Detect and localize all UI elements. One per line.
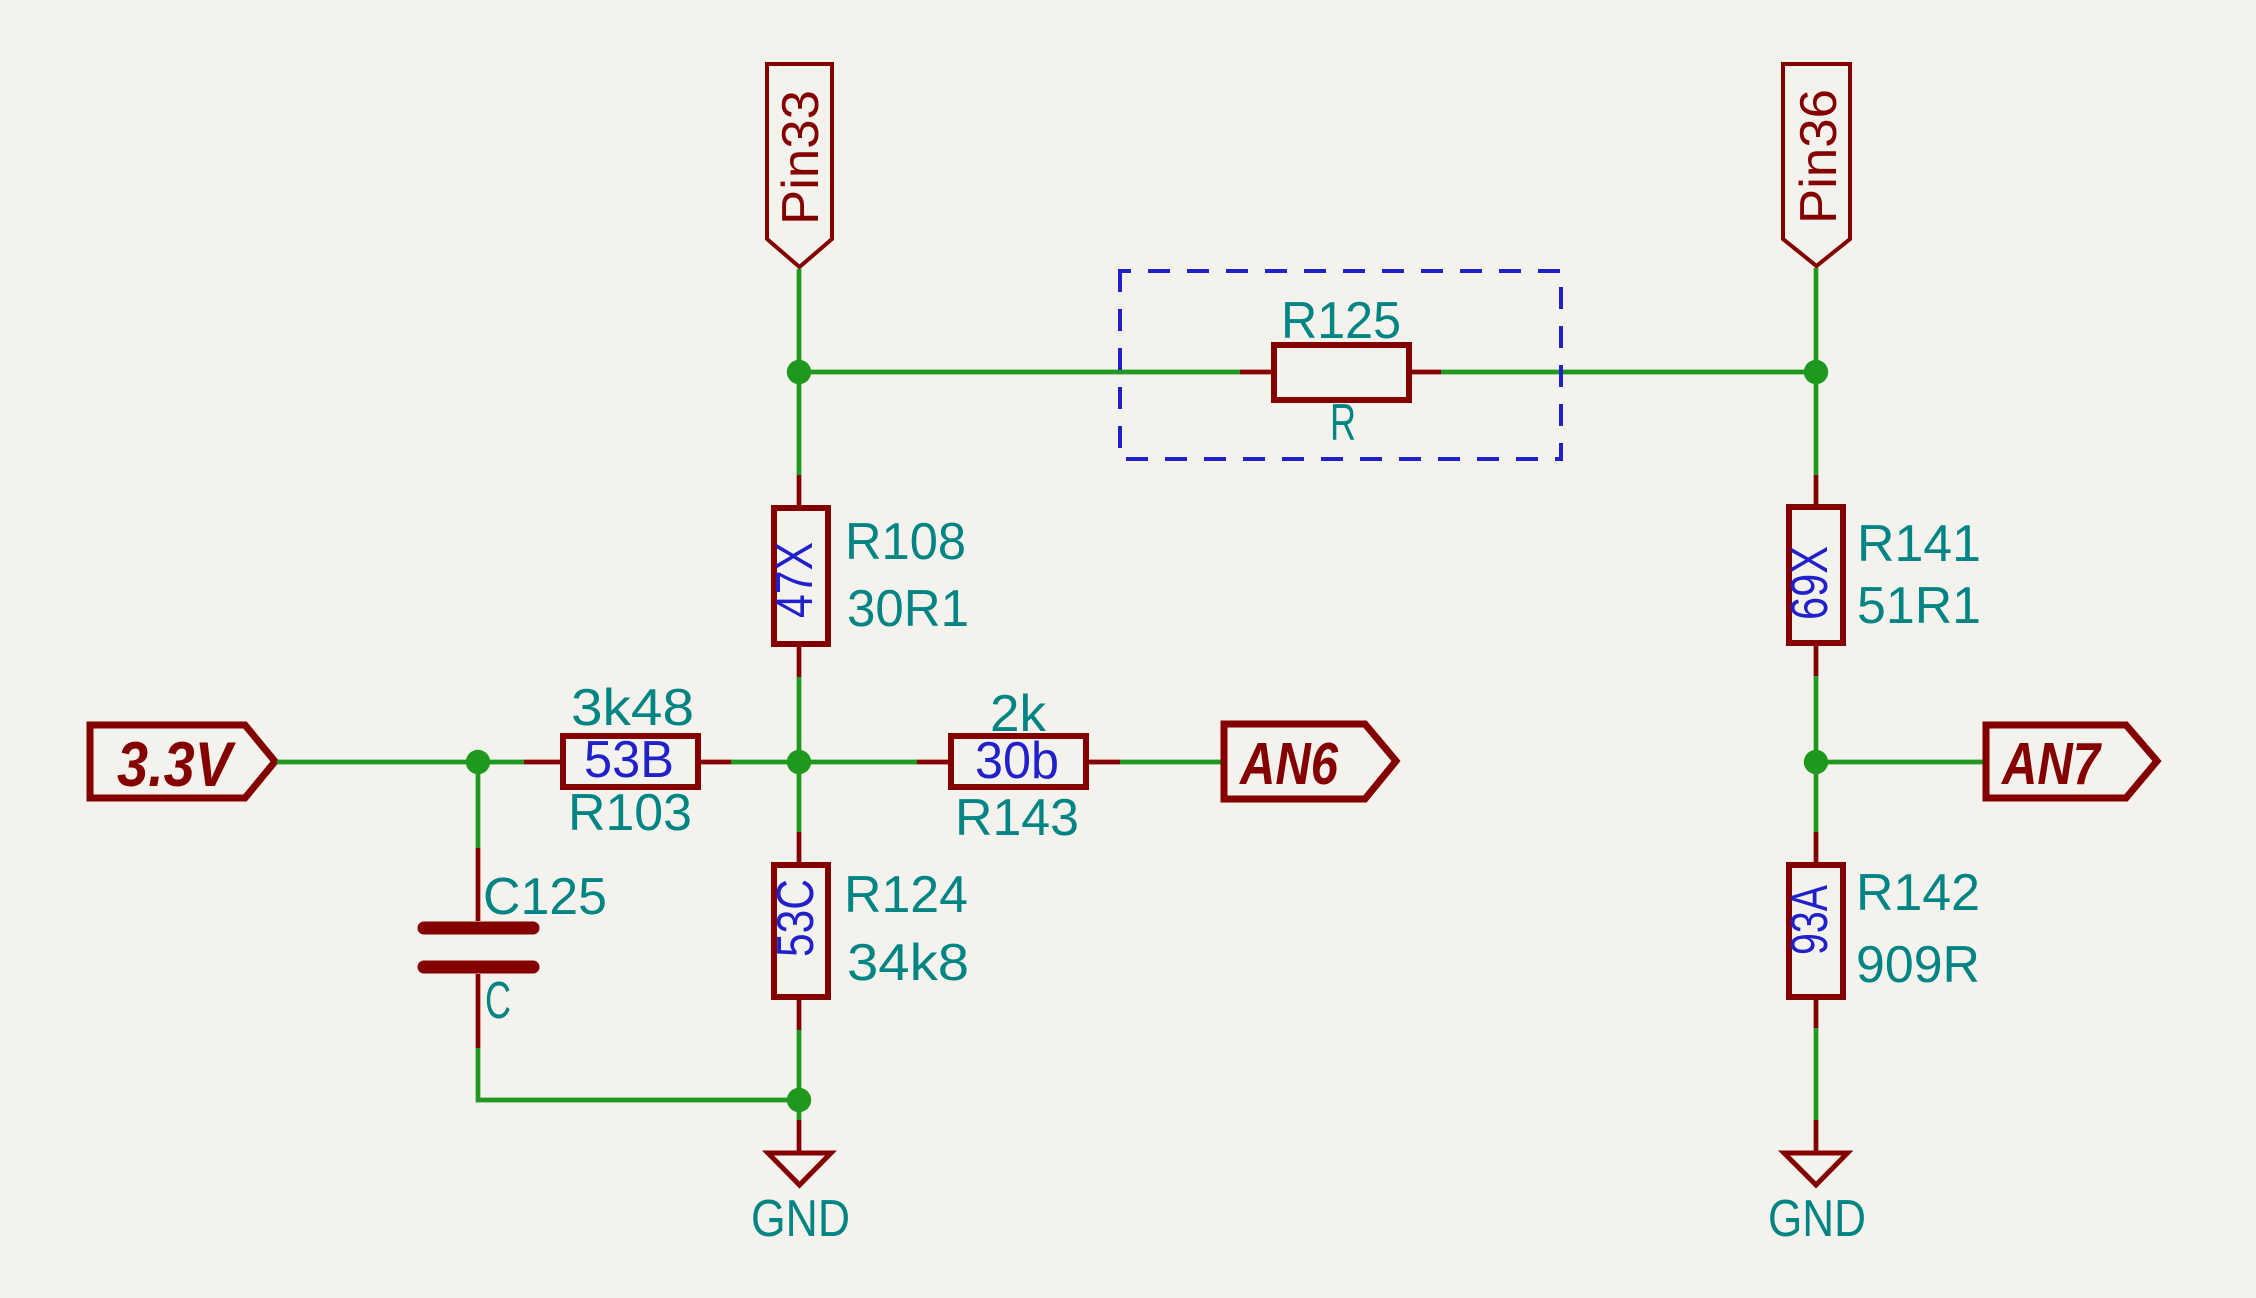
svg-text:GND: GND [1768, 1190, 1866, 1248]
svg-text:Pin33: Pin33 [772, 90, 830, 225]
wire R143 to AN6 [1120, 760, 1221, 765]
svg-text:AN6: AN6 [1238, 731, 1339, 797]
svg-text:53C: 53C [767, 879, 825, 957]
svg-text:Pin36: Pin36 [1790, 89, 1848, 224]
svg-text:30b: 30b [975, 732, 1059, 790]
wire Pin33 to junction [797, 269, 802, 372]
global label Pin33 [767, 64, 832, 267]
svg-text:R125: R125 [1281, 292, 1401, 350]
wire R141 bottom [1814, 676, 1819, 762]
junction node Pin33/R125 [787, 360, 811, 384]
svg-text:34k8: 34k8 [847, 934, 969, 992]
wire R108 bottom [797, 677, 802, 762]
ground symbol left [751, 1120, 850, 1248]
junction node 3.3V/C125 [466, 750, 490, 774]
svg-text:53B: 53B [584, 731, 674, 789]
wire R142 to GND [1814, 1028, 1819, 1120]
svg-text:R124: R124 [844, 866, 968, 924]
resistor R124 [767, 832, 969, 1030]
wire C branch down [476, 762, 481, 848]
svg-text:51R1: 51R1 [1857, 577, 1981, 635]
wire R108 top [797, 372, 802, 475]
global label AN7 [1986, 725, 2157, 798]
wire Pin36 to junction [1814, 268, 1819, 372]
svg-text:R143: R143 [955, 789, 1079, 847]
svg-text:3.3V: 3.3V [117, 730, 236, 800]
svg-text:C125: C125 [483, 868, 607, 926]
svg-text:R103: R103 [568, 784, 692, 842]
wire junction to R142 [1814, 762, 1819, 832]
resistor R142 [1781, 832, 1980, 1028]
wire C bottom to GND junction [478, 1048, 799, 1100]
ground symbol right [1768, 1120, 1866, 1248]
svg-text:909R: 909R [1856, 936, 1980, 994]
junction node GND left [787, 1088, 811, 1112]
svg-text:47X: 47X [766, 542, 824, 618]
wire top horizontal left [799, 370, 1240, 375]
resistor R141 [1781, 475, 1981, 676]
junction node Pin36/R125 [1804, 360, 1828, 384]
wire center junction to R124 [797, 762, 802, 832]
wire R124 to GND junction [797, 1030, 802, 1120]
resistor R108 [766, 475, 969, 677]
junction node center AN6 [787, 750, 811, 774]
wire top horizontal right [1441, 370, 1816, 375]
svg-text:R142: R142 [1856, 864, 1980, 922]
svg-text:R141: R141 [1857, 515, 1981, 573]
wire 3.3V to C junction [277, 760, 524, 765]
resistor R125 [1240, 292, 1441, 452]
global label Pin36 [1783, 64, 1850, 266]
svg-text:AN7: AN7 [2000, 731, 2102, 797]
resistor R103 [524, 679, 731, 842]
svg-text:69X: 69X [1781, 546, 1839, 620]
wire junction to AN7 [1816, 760, 1983, 765]
svg-text:R: R [1330, 394, 1356, 452]
svg-text:93A: 93A [1781, 885, 1839, 955]
svg-text:C: C [485, 972, 511, 1030]
wire R103 to center junction [731, 760, 917, 765]
global label AN6 [1224, 724, 1396, 799]
blue dashed DNP box [1120, 271, 1561, 459]
resistor R143 [917, 685, 1120, 847]
junction node AN7 [1804, 750, 1828, 774]
capacitor C125 [424, 848, 607, 1048]
svg-text:GND: GND [751, 1190, 850, 1248]
wire R141 top [1814, 372, 1819, 475]
svg-text:3k48: 3k48 [571, 679, 694, 737]
power label 3.3V [90, 725, 275, 800]
svg-text:30R1: 30R1 [847, 580, 969, 638]
svg-text:R108: R108 [845, 513, 966, 571]
